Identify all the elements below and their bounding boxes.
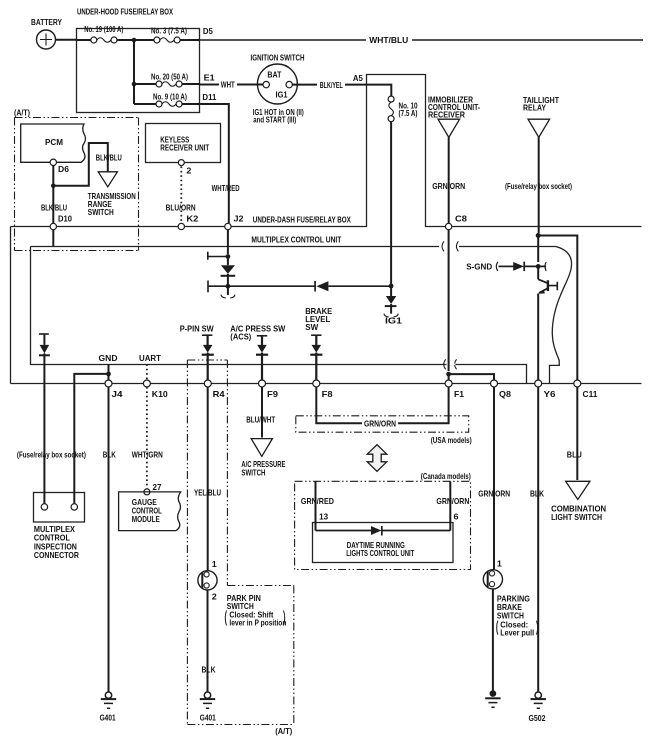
multiplex control inspection connector [34,493,85,561]
svg-text:BATTERY: BATTERY [31,17,62,27]
svg-text:D5: D5 [203,27,213,36]
svg-text:GRN/RED: GRN/RED [301,497,334,506]
diode arrow to IG1 [384,286,398,317]
fuse No.3 (7.5 A) [151,26,213,43]
svg-text:UART: UART [139,353,162,363]
internal wire with diode D-d (points right) [316,526,451,536]
svg-text:IGNITION SWITCH: IGNITION SWITCH [251,53,305,63]
pin K2 [178,215,199,230]
node with tick stub (lower) and internal bus wire [208,281,315,293]
parking brake switch S2 [483,560,537,638]
fuse No.19 (100 A) [84,25,123,43]
internal diode column to inspection connector [39,334,50,504]
pin F1 [445,380,464,399]
svg-text:Q8: Q8 [499,390,512,399]
svg-text:BLK/YEL: BLK/YEL [320,80,343,90]
stub with connector arcs below node [221,286,235,298]
svg-text:SWITCH: SWITCH [241,469,265,478]
svg-text:No. 19 (100 A): No. 19 (100 A) [84,25,123,34]
svg-text:6: 6 [454,513,460,522]
wire D10 into multiplex control unit [52,229,54,246]
svg-text:P-PIN SW: P-PIN SW [180,325,214,334]
pin Q8 [491,380,512,399]
svg-text:GND: GND [99,353,118,363]
diode D-b (points left) [315,281,389,292]
UART dotted wire [139,353,162,489]
wire BLU from C11 to combination light switch [567,387,582,480]
svg-text:G401: G401 [100,713,116,722]
wire BLU/WHT from F9 [246,387,275,438]
svg-text:(Canada models): (Canada models) [421,472,471,481]
combination light switch [551,481,606,522]
svg-text:Lever pull: Lever pull [500,628,534,637]
USA models dash-dot box [296,416,469,432]
svg-text:K10: K10 [152,390,169,399]
svg-text:F8: F8 [322,390,334,399]
svg-text:J2: J2 [234,215,245,224]
svg-text:(USA models): (USA models) [431,436,472,445]
ground G401 (left) [100,692,117,722]
svg-text:BLK/BLU: BLK/BLU [96,154,122,163]
GND branch of multiplex unit [74,353,117,504]
fuse No.10 (7.5 A) [367,85,418,286]
ground (parking brake, filled) [485,690,500,707]
A/T dash-dot channel and box (bottom) [187,360,293,725]
park pin switch S1 [198,560,287,627]
svg-text:No. 3 (7.5 A): No. 3 (7.5 A) [151,26,187,35]
pin F8 [313,380,333,399]
pin 2 of keyless receiver [178,160,192,176]
svg-text:SWITCH: SWITCH [497,612,524,621]
svg-text:LIGHT SWITCH: LIGHT SWITCH [551,513,602,522]
wire D6 down and junction [51,166,56,227]
svg-text:D6: D6 [58,165,70,174]
S-GND circuit [466,262,514,272]
svg-text:(Fuse/relay box socket): (Fuse/relay box socket) [17,451,86,460]
pin Y6 [535,380,556,399]
wire BLK from J4 to G401 [103,387,116,692]
svg-text:G401: G401 [200,713,216,722]
wire WHT/GRN dotted to gauge control module [132,451,163,492]
gauge control module U4 [119,492,181,531]
wire BLK/BLU label and pin D10 [41,204,72,230]
svg-text:13: 13 [319,513,328,522]
junction node above F1 with branch to Q8 [446,372,494,380]
node with tick stub (upper) [208,252,231,260]
svg-text:SWITCH: SWITCH [88,208,114,217]
wire from box edge through fuse row [76,39,91,41]
pin 27 of gauge control module [144,489,150,495]
A/C PRESS SW switch symbol [230,325,285,380]
svg-text:2: 2 [212,593,218,602]
multiplex control unit box [31,235,557,384]
transistor Q1 [538,266,557,380]
svg-text:BLU/WHT: BLU/WHT [246,416,275,425]
PCM U2 [21,124,86,162]
pin J4 [105,380,123,399]
svg-text:BAT: BAT [267,70,282,80]
wire BLK park pin switch to G401 [202,590,216,692]
pin C11 [574,380,598,399]
wire from C8 down through multiplex unit to F1 [448,229,450,371]
diode D-c (points right) [513,262,546,271]
svg-text:No. 20 (50 A): No. 20 (50 A) [151,73,188,82]
svg-text:BLK: BLK [202,666,216,675]
svg-text:27: 27 [153,483,162,492]
fuse No.20 (50 A) [134,73,215,88]
svg-text:No. 9 (10 A): No. 9 (10 A) [153,93,187,102]
svg-text:E1: E1 [204,74,216,83]
svg-text:(7.5 A): (7.5 A) [399,109,418,118]
P-PIN SW switch symbol [180,325,214,380]
svg-text:C11: C11 [583,390,599,399]
wire node A (junction between fuses) [117,38,154,104]
svg-text:UNDER-DASH FUSE/RELAY BOX: UNDER-DASH FUSE/RELAY BOX [253,215,351,225]
svg-text:UNDER-HOOD FUSE/RELAY BOX: UNDER-HOOD FUSE/RELAY BOX [77,7,173,17]
svg-text:GRN/ORN: GRN/ORN [478,489,510,498]
wire GRN/ORN immobilizer to C8 [432,137,465,223]
pin K10 [143,380,168,399]
under-hood fuse/relay box [77,7,200,113]
dotted wire BLU/ORN keyless to K2 [166,167,196,223]
pin C8 [445,215,467,230]
junction node and wire to C11 column [536,233,578,380]
fuse No.9 (10 A) [134,93,217,107]
immobilizer control unit-receiver U1 [428,95,480,137]
wire J2 into multiplex unit [227,229,229,254]
svg-text:BLK: BLK [530,489,544,498]
svg-text:1: 1 [497,560,503,569]
bus line: under-dash box bottom edge [11,383,642,385]
svg-text:(A/T): (A/T) [275,727,292,736]
wire taillight relay down [505,137,572,233]
ground G401 (A/T) [200,692,216,722]
svg-text:F9: F9 [267,390,279,399]
svg-text:A5: A5 [353,74,363,83]
svg-text:PCM: PCM [45,137,63,147]
svg-text:IG1: IG1 [276,89,288,99]
wire GRN/ORN pin 6 [436,481,469,530]
ground G502 [529,692,546,723]
svg-text:F1: F1 [454,390,465,399]
pin F9 [259,380,279,399]
pin J2 [225,215,244,230]
svg-text:1: 1 [212,560,218,569]
svg-text:WHT/GRN: WHT/GRN [132,451,163,460]
svg-text:S-GND: S-GND [466,262,492,272]
torn wavy edge of fuse/relay box socket region [550,247,572,384]
svg-text:GRN/ORN: GRN/ORN [436,497,469,506]
daytime running lights control unit U5 [313,523,454,563]
wire BLK from Y6 to G502 [530,387,544,692]
svg-text:2: 2 [186,167,192,176]
svg-text:RECEIVER UNIT: RECEIVER UNIT [160,143,209,152]
A/T dash-dot box (top left) [15,118,139,251]
Canada models dash-dot box [295,481,471,569]
svg-text:MODULE: MODULE [132,515,160,524]
wire GRN/RED pin 13 [301,481,334,530]
A/C pressure switch [241,439,285,478]
wire BLK/YEL ignition to A5 [292,74,366,90]
svg-text:GRN/ORN: GRN/ORN [432,181,465,191]
svg-text:MULTIPLEX CONTROL UNIT: MULTIPLEX CONTROL UNIT [251,235,342,245]
connector pass-through marks at multiplex bottom edge [444,359,457,369]
svg-text:Y6: Y6 [544,390,557,399]
wire WHT from E1 to ignition switch [199,80,263,90]
wire branch to transmission range switch [53,143,108,186]
wire WHT/RED from D11 to J2 [199,104,239,223]
wire GRN/ORN from Q8 to parking brake switch [478,387,510,570]
svg-text:IG1: IG1 [385,316,402,326]
svg-text:LIGHTS CONTROL UNIT: LIGHTS CONTROL UNIT [346,549,414,558]
wire battery to under-hood box [56,39,77,41]
svg-text:RELAY: RELAY [523,104,547,113]
pin R4 [204,380,225,399]
svg-text:D11: D11 [202,93,216,102]
svg-text:YEL/BLU: YEL/BLU [194,489,221,498]
svg-text:K2: K2 [186,215,199,224]
keyless receiver unit U3 [146,124,221,163]
taillight relay K1 [523,96,559,137]
svg-text:MULTIPLEX: MULTIPLEX [34,525,76,534]
ignition switch [251,53,305,125]
svg-text:(A/T): (A/T) [14,109,30,118]
double arrow (alternate) [367,445,387,472]
svg-text:(ACS): (ACS) [230,333,251,342]
svg-text:J4: J4 [112,390,124,399]
pin D6 [50,159,69,174]
wire parking brake switch to ground [492,589,494,692]
svg-text:RECEIVER: RECEIVER [428,110,465,119]
svg-text:C8: C8 [455,215,468,224]
diode D-a (points down) [221,257,236,287]
svg-text:WHT: WHT [221,80,235,90]
svg-text:R4: R4 [213,390,226,399]
svg-text:GRN/ORN: GRN/ORN [364,420,396,429]
svg-text:G502: G502 [529,714,546,723]
BRAKE LEVEL SW switch symbol [305,307,333,380]
svg-text:BLU: BLU [567,451,582,460]
svg-text:and START (III): and START (III) [253,115,296,124]
svg-text:CONTROL: CONTROL [34,534,70,543]
battery [31,17,62,49]
svg-text:lever in P position: lever in P position [229,618,286,627]
svg-text:INSPECTION: INSPECTION [34,542,77,551]
connector pass-through marks at multiplex top edge [442,241,458,251]
svg-text:SW: SW [305,323,318,332]
transmission range switch [88,154,136,218]
svg-text:BLU/ORN: BLU/ORN [166,204,196,213]
svg-text:D10: D10 [58,215,72,224]
wire WHT/BLU from D5 to right edge [199,35,643,45]
under-dash fuse/relay box outline with fuse bulge [11,75,642,384]
wire GRN/ORN jumper F8 to F1 (USA models) [316,387,448,429]
svg-text:BLK/BLU: BLK/BLU [41,204,67,213]
svg-text:CONNECTOR: CONNECTOR [34,551,79,560]
wire YEL/BLU from R4 to park pin switch [194,387,221,571]
svg-text:WHT/RED: WHT/RED [212,183,240,193]
svg-text:WHT/BLU: WHT/BLU [369,35,408,45]
junction node on IG1 wire [389,284,394,289]
svg-text:(Fuse/relay box socket): (Fuse/relay box socket) [505,182,572,191]
svg-text:BLK: BLK [103,451,116,460]
